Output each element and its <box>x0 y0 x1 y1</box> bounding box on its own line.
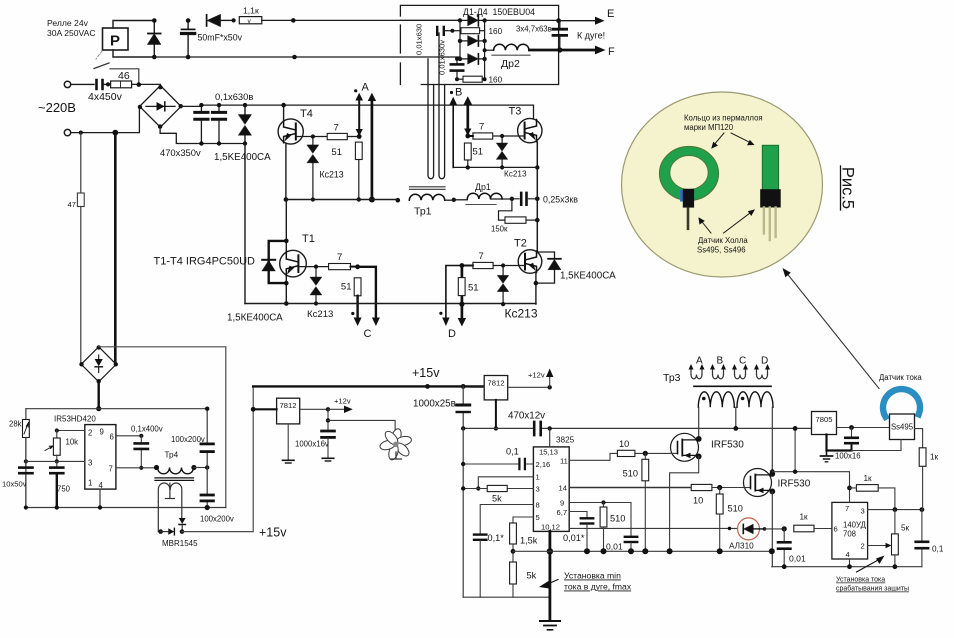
regulator 7805 <box>812 412 890 435</box>
svg-text:тока в дуге, fmax: тока в дуге, fmax <box>564 582 632 592</box>
supply rail y428 <box>463 427 811 429</box>
svg-text:510: 510 <box>623 469 638 479</box>
svg-text:160: 160 <box>489 76 503 85</box>
capacitor 0,1 at pin 2,16 <box>461 447 533 470</box>
svg-text:7: 7 <box>845 504 849 513</box>
resistor 51 T2 <box>458 278 478 296</box>
svg-text:Кс213: Кс213 <box>307 309 333 320</box>
svg-text:1: 1 <box>536 473 540 482</box>
wire Tp3 left end to IRF1 drain <box>698 407 700 439</box>
resistor 5k lower <box>510 562 537 597</box>
node dot AC2 to aux bridge (bold) <box>112 130 118 136</box>
sensor package black base <box>760 189 781 207</box>
svg-text:Установка тока: Установка тока <box>836 577 885 584</box>
svg-text:150EBU04: 150EBU04 <box>493 7 536 17</box>
svg-text:470x12v: 470x12v <box>508 411 545 422</box>
hall sensor blue gap <box>680 190 683 202</box>
resistor 10 no2 <box>691 484 742 505</box>
wire pin 14 <box>569 487 691 489</box>
arrow +12v no2 <box>528 369 553 388</box>
wire row1 into box <box>400 19 460 21</box>
wire pin 1 <box>478 477 533 489</box>
zener Kc213 T4 <box>307 134 344 201</box>
phase A thin arrow with two heads <box>355 93 363 136</box>
svg-text:Установка min: Установка min <box>564 571 621 581</box>
svg-text:510: 510 <box>728 504 743 514</box>
capacitor 0,01* <box>563 518 593 554</box>
transformer Tp4 secondary <box>158 483 182 532</box>
wire 46 to bridge top vertex <box>132 84 161 87</box>
capacitor 100x200v upper <box>171 407 213 468</box>
arrow to sensor <box>731 133 755 145</box>
svg-text:3825: 3825 <box>556 436 575 445</box>
svg-text:1,5KE400CA: 1,5KE400CA <box>214 152 271 163</box>
zener Kc213 T3 <box>496 134 527 179</box>
wire F output bold <box>529 49 596 52</box>
line B emitter <box>453 166 537 168</box>
fan ground <box>391 452 402 459</box>
wire T3 emitter down to T2 <box>536 142 538 251</box>
svg-text:4: 4 <box>99 481 104 490</box>
resistor 510 no2 <box>716 488 743 555</box>
svg-text:+15v: +15v <box>259 526 287 540</box>
svg-text:Др2: Др2 <box>501 58 520 70</box>
svg-text:11: 11 <box>560 457 568 466</box>
relay P coil 24v <box>103 28 129 50</box>
svg-text:0,1x630в: 0,1x630в <box>215 91 253 102</box>
svg-text:Тр3: Тр3 <box>663 372 681 384</box>
rail +15v bold <box>253 385 484 387</box>
permalloy ring green <box>660 147 719 201</box>
capacitor 1000x25v <box>413 386 470 428</box>
resistor 150k <box>491 199 540 234</box>
cap 0,01x630 series row2 <box>437 27 461 35</box>
wire pin4 to bottom <box>99 489 101 507</box>
wire bridge plus to DC+ rail <box>181 105 534 119</box>
svg-text:+12v: +12v <box>334 397 351 406</box>
snubber box outline <box>400 5 558 84</box>
op-amp rail lower <box>772 566 922 568</box>
wire T1 emitter <box>285 277 287 304</box>
svg-text:14: 14 <box>559 484 567 493</box>
phase B bold arrow <box>464 96 472 135</box>
capacitor 1000x16v <box>295 409 334 461</box>
transistor T1 <box>280 233 315 277</box>
svg-text:Датчик тока: Датчик тока <box>879 373 922 382</box>
svg-text:срабатывания зашиты: срабатывания зашиты <box>836 585 909 593</box>
svg-text:D: D <box>448 328 456 340</box>
wire +15v from MBR <box>182 386 253 531</box>
svg-text:E: E <box>607 8 614 20</box>
diode MBR horizontal <box>158 528 198 548</box>
svg-text:5к: 5к <box>901 524 910 533</box>
diode MBR vertical <box>179 518 186 532</box>
wire supply tap to op section <box>794 428 796 471</box>
svg-text:Т2: Т2 <box>514 238 527 250</box>
svg-text:7: 7 <box>479 122 484 133</box>
resistor 1,1k <box>239 6 261 26</box>
wire IRF2 source down <box>771 491 773 566</box>
aux bridge rectifier <box>81 347 116 382</box>
resistor 51 T3 <box>464 143 483 170</box>
capacitor 100x200v lower <box>200 468 234 524</box>
svg-text:3: 3 <box>861 507 865 516</box>
relay switch wire to 46 node <box>110 69 139 85</box>
relay linkage dashes <box>96 51 102 59</box>
svg-text:51: 51 <box>331 147 342 158</box>
svg-text:2: 2 <box>861 542 865 551</box>
capacitor 50mF*x50v <box>182 18 195 59</box>
svg-text:7: 7 <box>109 465 113 474</box>
wire top rail to snubber row1 <box>262 19 460 21</box>
sensor package legs <box>764 208 776 241</box>
IC 3825 <box>533 436 574 532</box>
svg-text:+15v: +15v <box>412 366 440 380</box>
transformer Tp1 primary <box>396 194 456 217</box>
hall sensor leg <box>687 208 690 231</box>
transistor T3 <box>509 106 543 143</box>
choke Dr1 <box>455 182 514 205</box>
arrowhead F <box>595 46 606 55</box>
resistor 7 T3 <box>465 122 492 140</box>
svg-text:0,01*: 0,01* <box>563 533 585 543</box>
resistor 160 row2 <box>461 27 503 36</box>
resistor 46 <box>111 70 132 88</box>
pot 10k <box>45 431 78 464</box>
svg-text:1,1к: 1,1к <box>243 6 259 16</box>
svg-text:51: 51 <box>341 282 352 293</box>
capacitor 3x4,7x63v <box>553 21 567 50</box>
capacitor 0,1x400v <box>131 425 163 470</box>
zener Kc213 T2 <box>497 263 537 320</box>
svg-text:1,5КЕ400СА: 1,5КЕ400СА <box>560 271 616 282</box>
svg-text:100x200v: 100x200v <box>171 435 205 444</box>
capacitor 750 <box>50 461 70 509</box>
resistor 7 T4 <box>327 123 361 140</box>
svg-text:2,16: 2,16 <box>536 460 551 469</box>
rail A mid <box>286 199 398 201</box>
transformer Tp1 secondary hairpins <box>428 33 445 179</box>
wire lower terminal AC2 <box>71 108 140 133</box>
svg-text:50mF*x50v: 50mF*x50v <box>198 33 243 43</box>
wire E output <box>559 20 596 22</box>
phase A bold arrow from rail <box>368 93 376 203</box>
phase D thin arrow <box>442 266 462 327</box>
svg-text:15,13: 15,13 <box>539 448 558 457</box>
resistor 47 <box>68 133 85 364</box>
capacitor 4x450v input <box>88 80 123 103</box>
wire pin 8 to cap 0,1* <box>480 505 533 534</box>
analog ground rail <box>513 550 772 552</box>
svg-text:+12v: +12v <box>528 371 545 380</box>
capacitor 10x50v <box>2 438 33 510</box>
wire T2 emitter <box>535 273 537 304</box>
svg-text:К дуге!: К дуге! <box>577 31 605 41</box>
svg-text:MBR1545: MBR1545 <box>162 539 198 548</box>
terminal lower ~220B <box>64 129 70 135</box>
wire T4 gate <box>297 136 328 138</box>
svg-text:IRF530: IRF530 <box>778 479 811 490</box>
capacitor 0,1 right <box>916 510 944 567</box>
svg-text:1,5КЕ400СА: 1,5КЕ400СА <box>227 313 283 324</box>
terminal upper ~220B <box>64 81 70 87</box>
capacitor 470x12v series <box>508 411 545 436</box>
svg-text:470x350v: 470x350v <box>160 147 201 158</box>
node dots on +15v rail <box>425 384 430 389</box>
svg-text:7812: 7812 <box>488 379 505 388</box>
resistor 5k pin3 <box>461 485 533 503</box>
svg-text:0,01x630: 0,01x630 <box>415 24 424 55</box>
IR block bottom rail <box>26 507 226 509</box>
hall sensor Ss495 <box>890 414 923 451</box>
node dot at 46 output <box>137 82 142 87</box>
wire T4 collector <box>283 105 285 119</box>
left bus in box <box>459 20 461 59</box>
resistor 7 T2 <box>460 251 494 269</box>
svg-text:Релле 24v: Релле 24v <box>47 18 89 28</box>
svg-text:0,01: 0,01 <box>789 554 806 564</box>
svg-text:Тр1: Тр1 <box>414 206 432 218</box>
svg-text:Ss495: Ss495 <box>891 423 914 432</box>
svg-text:Д1-Д4: Д1-Д4 <box>463 7 488 17</box>
svg-text:C: C <box>364 328 372 340</box>
choke Dr2 <box>483 44 530 70</box>
Tp3 secondary B <box>710 356 726 379</box>
svg-text:1,5k: 1,5k <box>520 536 538 546</box>
aux bridge corner dots <box>79 345 118 383</box>
transformer Tp4 primary <box>154 451 210 474</box>
svg-text:140УД: 140УД <box>843 521 867 530</box>
svg-text:0,1*: 0,1* <box>488 533 505 543</box>
node dot F at box edge <box>557 47 562 52</box>
resistor 10 no1 <box>617 439 669 457</box>
svg-text:1к: 1к <box>800 513 809 522</box>
resistor 7 T1 <box>329 252 360 270</box>
wire T1 gate <box>299 266 329 268</box>
svg-text:АЛ310: АЛ310 <box>729 542 754 551</box>
svg-text:1: 1 <box>88 479 92 488</box>
transistor T2 <box>514 238 542 274</box>
label ustanovka toka <box>836 556 909 593</box>
svg-text:IR53HD420: IR53HD420 <box>54 415 96 424</box>
svg-text:47: 47 <box>68 200 76 209</box>
arrowhead E <box>595 17 605 25</box>
capacitor 0,1x630 no2 <box>212 103 225 146</box>
diode D2 row3 <box>458 36 487 46</box>
svg-text:0,1: 0,1 <box>506 447 519 457</box>
diode D3 row4 <box>458 54 487 64</box>
op-amp 140UD708 <box>832 502 868 559</box>
TVS 1,5KE400CA top <box>238 103 251 146</box>
transformer Tp4 core <box>155 478 194 481</box>
svg-text:150к: 150к <box>491 225 508 234</box>
wire op pin3 <box>868 509 922 511</box>
svg-text:7: 7 <box>334 123 339 134</box>
wire Tp3 center tap <box>735 407 737 428</box>
MOSFET IRF530 no2 <box>743 469 811 497</box>
wire pin6 <box>116 435 141 437</box>
svg-text:6: 6 <box>834 525 838 534</box>
wire T2 gate <box>473 265 525 267</box>
resistor 1k feedback <box>850 474 895 510</box>
svg-text:0,1x400v: 0,1x400v <box>131 425 163 434</box>
svg-text:IRF530: IRF530 <box>711 440 744 451</box>
wire aux bridge plus bold down <box>97 382 99 409</box>
regulator 7812 no2 <box>471 376 552 431</box>
capacitor 0,1* <box>474 533 504 597</box>
Tp3 primary winding right <box>737 392 773 408</box>
svg-text:4: 4 <box>846 550 850 559</box>
aux bridge diode symbol <box>95 355 103 373</box>
svg-text:1000x25в: 1000x25в <box>413 399 456 410</box>
relay switch contact arm <box>94 63 109 69</box>
MOSFET IRF530 no1 <box>669 433 744 461</box>
wire pin 10,12 bold ground <box>540 531 560 629</box>
resistor 28k <box>9 420 29 438</box>
phase C left arrow <box>354 296 362 326</box>
svg-text:10k: 10k <box>66 438 79 447</box>
sensor package green body <box>762 145 778 191</box>
resistor 1,5k pin5 <box>510 517 538 562</box>
svg-text:Т1-Т4 IRG4PC50UD: Т1-Т4 IRG4PC50UD <box>154 256 256 268</box>
svg-text:2: 2 <box>88 429 92 438</box>
arrow holla to ring <box>698 217 711 233</box>
wire pin 9 <box>569 503 631 537</box>
svg-text:3x4,7x63в: 3x4,7x63в <box>516 25 552 34</box>
capacitor 0,1x630 no1 <box>195 103 208 146</box>
antiparallel diode T1 <box>262 241 286 283</box>
svg-text:750: 750 <box>57 485 71 494</box>
node dot AC2 to 47 branch <box>79 131 83 135</box>
wire pin 6,7 <box>569 512 587 518</box>
diode D1 row1 <box>458 15 559 26</box>
resistor 1k sensor <box>919 448 938 510</box>
wire pin2 <box>57 430 85 432</box>
Tp3 primary winding left <box>698 392 734 408</box>
resistor 51 T4 <box>331 142 362 202</box>
svg-text:Рис.5: Рис.5 <box>839 167 857 209</box>
wire Tp3 right end to IRF2 drain <box>771 407 773 474</box>
svg-text:Др1: Др1 <box>475 182 491 192</box>
svg-text:7805: 7805 <box>816 415 833 424</box>
capacitor 0,01 pin9 <box>606 537 637 555</box>
return rail left vertical <box>462 428 464 597</box>
arrow +12v no1 <box>328 397 353 414</box>
node dot lower rail <box>292 55 297 60</box>
wire T1 collector from A rail <box>285 200 287 251</box>
svg-text:Кс213: Кс213 <box>504 170 527 179</box>
arrow to ring <box>711 133 724 149</box>
bold wire AC to aux bridge <box>114 133 117 364</box>
svg-text:10: 10 <box>619 439 629 449</box>
svg-text:0,25x3кв: 0,25x3кв <box>543 195 578 205</box>
TVS 1,5KE400CA T2 <box>536 252 616 283</box>
wire op pin7 supply <box>772 472 849 503</box>
main bridge diode symbol <box>157 102 165 111</box>
svg-text:10: 10 <box>693 496 703 506</box>
wire bridge minus jog to caps bottom line <box>160 127 245 143</box>
regulator 7812 no1 ground <box>283 424 295 463</box>
LED AL310 <box>569 518 784 551</box>
svg-text:51: 51 <box>473 147 484 158</box>
Tp3 secondary D <box>754 356 770 379</box>
wire op pin4 <box>849 559 851 567</box>
svg-text:B: B <box>717 356 724 367</box>
right bus in box <box>484 20 486 79</box>
capacitor 0,01 op <box>778 526 806 569</box>
Tp3 core <box>694 385 771 387</box>
svg-text:160: 160 <box>489 27 503 36</box>
svg-text:510: 510 <box>610 514 625 524</box>
phase D bold arrow <box>458 266 466 327</box>
svg-text:5k: 5k <box>492 494 502 504</box>
svg-text:Кс213: Кс213 <box>505 307 538 321</box>
svg-text:5k: 5k <box>527 571 537 581</box>
svg-text:марки МП120: марки МП120 <box>684 123 734 132</box>
svg-text:F: F <box>608 46 615 58</box>
svg-text:6,7: 6,7 <box>557 508 568 517</box>
svg-text:Тр4: Тр4 <box>165 451 179 460</box>
regulator 7812 no1 <box>251 398 330 424</box>
svg-text:Т3: Т3 <box>509 106 522 118</box>
svg-text:9: 9 <box>560 499 564 508</box>
svg-text:100x16: 100x16 <box>835 452 861 461</box>
resistor 1k to pin6 <box>794 513 832 532</box>
svg-text:1к: 1к <box>930 453 939 462</box>
resistor 51 T1 <box>341 278 361 296</box>
hall sensor in ring <box>683 189 694 208</box>
svg-text:9: 9 <box>100 428 104 437</box>
pot 5k protection <box>892 510 910 569</box>
svg-text:Т4: Т4 <box>300 108 313 120</box>
wire T3 gate <box>493 135 524 137</box>
svg-text:51: 51 <box>468 283 479 294</box>
wire upper terminal to cap <box>71 83 94 85</box>
svg-text:1к: 1к <box>864 474 873 483</box>
wire relay bottom to rail <box>113 50 154 57</box>
diode D flyback across relay <box>148 18 162 59</box>
arrow holla to legs <box>724 209 756 233</box>
svg-text:5: 5 <box>536 513 540 522</box>
node dot E at box edge <box>556 18 561 23</box>
Ris5 big circle <box>622 92 823 277</box>
svg-text:3: 3 <box>536 485 540 494</box>
rail DC minus bottom <box>245 303 536 305</box>
wire aux bridge minus loop right <box>99 347 226 508</box>
left return bottom wire <box>463 596 550 598</box>
resistor 160 row5 <box>457 76 503 85</box>
wire op pin2 to pot wiper <box>868 543 892 548</box>
svg-text:7: 7 <box>337 252 342 263</box>
diode series in top rail <box>207 14 236 26</box>
svg-text:A: A <box>362 82 370 94</box>
svg-text:708: 708 <box>843 530 856 539</box>
svg-text:6: 6 <box>110 433 114 442</box>
resistor 510 no1 <box>623 453 649 554</box>
svg-text:P: P <box>110 33 120 50</box>
svg-text:0,01: 0,01 <box>606 542 623 552</box>
wire relay top to rail <box>113 21 154 29</box>
svg-text:30A 250VAC: 30A 250VAC <box>47 28 96 38</box>
transistor T4 <box>278 108 313 144</box>
svg-text:В: В <box>455 87 462 99</box>
svg-text:Кольцо из пермаллоя: Кольцо из пермаллоя <box>684 114 763 123</box>
resistor 510 no3 <box>600 500 625 554</box>
main bridge corner dots <box>138 85 183 129</box>
wire lower relay rail to snubber row4 <box>154 57 460 59</box>
svg-text:~220В: ~220В <box>38 100 76 115</box>
svg-text:8: 8 <box>536 501 540 510</box>
